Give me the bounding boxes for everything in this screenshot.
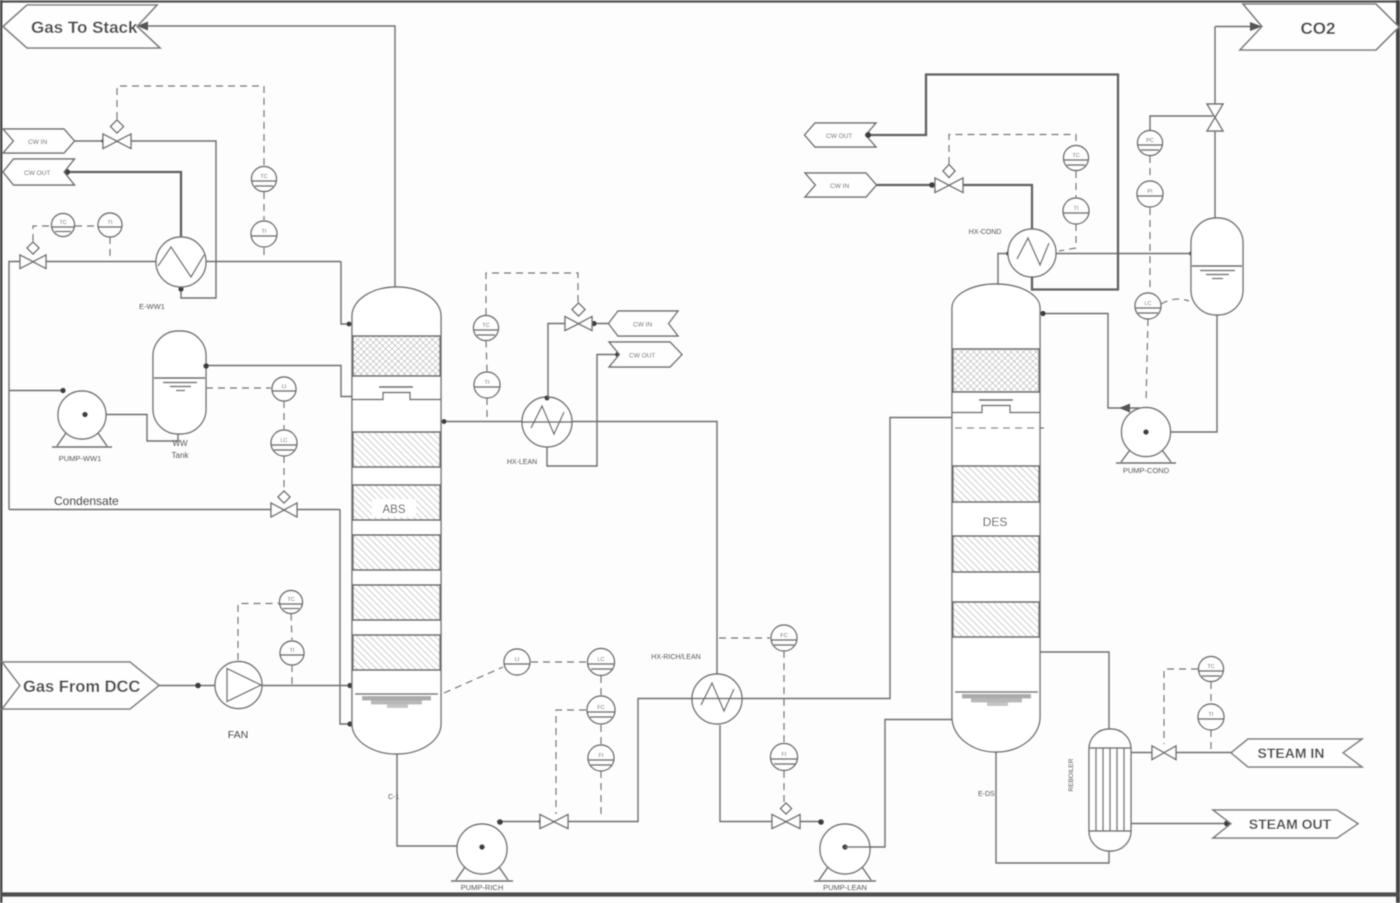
svg-text:C-1: C-1: [388, 794, 399, 801]
svg-text:PI: PI: [1147, 189, 1153, 195]
node dot at CW OUT banner: [64, 169, 70, 175]
node drum liquid level: [1192, 266, 1242, 279]
instrument LC condensate level controller: [271, 430, 297, 456]
svg-text:HX-RICH/LEAN: HX-RICH/LEAN: [651, 654, 700, 661]
svg-text:Gas To Stack: Gas To Stack: [31, 18, 138, 37]
wire condensate to ABS sump: [340, 510, 352, 725]
svg-text:CW OUT: CW OUT: [826, 133, 852, 140]
packing DES bed 2: [952, 536, 1040, 572]
packing ABS bed 3: [352, 535, 441, 570]
wire condensate line: [9, 509, 271, 511]
svg-text:ABS: ABS: [382, 504, 405, 516]
wire DES vapor side draw to reboiler: [1040, 652, 1109, 729]
banner CW OUT (DES side): [805, 123, 877, 147]
node entry dot: [347, 322, 352, 327]
svg-text:LI: LI: [282, 384, 287, 390]
node discharge dot: [60, 388, 65, 393]
node HX-LEAN top junction: [544, 395, 549, 400]
instrument TI gas line: [280, 641, 304, 665]
svg-text:HX-LEAN: HX-LEAN: [507, 459, 537, 466]
wire steam out line: [1131, 823, 1229, 825]
svg-text:FC: FC: [597, 705, 604, 711]
svg-text:E-DS: E-DS: [978, 791, 995, 798]
node dot at CW OUT: [615, 352, 621, 358]
banner CW IN (top left): [3, 129, 75, 153]
banner CO2: [1240, 4, 1399, 50]
instrument TI wash outlet: [251, 221, 277, 247]
instrument LC rich flow controller: [588, 649, 616, 676]
heat exchanger HX-LEAN: [522, 397, 572, 447]
wire CW supply to HX-COND: [877, 185, 1033, 229]
banner STEAM IN: [1231, 739, 1362, 767]
node junction: [195, 683, 201, 689]
svg-text:FC: FC: [780, 633, 787, 639]
instrument TI wash line: [98, 213, 122, 237]
wire ABS bottoms to PUMP-RICH: [397, 754, 458, 846]
wire dashed level loop: [206, 388, 284, 491]
valve HX-LEAN CW valve: [565, 303, 592, 331]
wire HX-COND outlet to reflux drum: [1056, 253, 1191, 255]
instrument TI CO2 temp: [1063, 198, 1089, 224]
wire rich line to DES: [742, 418, 952, 699]
svg-text:LC: LC: [597, 657, 604, 663]
wire dashed rich instrument loops: [444, 662, 601, 819]
wire dashed reboiler instrument loop: [1164, 669, 1211, 750]
instrument TC wash valve controller: [52, 214, 75, 237]
node dot at CW OUT banner: [865, 132, 871, 138]
svg-text:Gas From DCC: Gas From DCC: [23, 678, 140, 696]
svg-text:FI: FI: [782, 752, 787, 758]
wire dashed pressure chain: [1146, 156, 1189, 403]
pump PUMP-COND: [1116, 408, 1176, 464]
heat exchanger HX-COND: [1008, 229, 1056, 277]
instrument TI steam temp: [1198, 704, 1224, 730]
svg-text:PUMP-COND: PUMP-COND: [1123, 466, 1170, 475]
wire steam in line: [1131, 752, 1152, 754]
node DES sump liquid level: [955, 692, 1038, 706]
wire CW return loop HX-COND to CW OUT: [868, 75, 1118, 290]
svg-text:PC: PC: [1146, 138, 1154, 144]
svg-text:REBOILER: REBOILER: [1068, 758, 1075, 791]
wire drum overhead to valve and CO2: [1214, 131, 1216, 218]
wire reflux return to DES top: [1042, 314, 1140, 409]
packing DES bed 1: [952, 466, 1040, 502]
node arrowhead into CO2 banner: [1250, 22, 1262, 31]
node ABS label: [372, 499, 416, 517]
wire DES bottoms to reboiler: [996, 752, 1109, 863]
wire PC tap: [1150, 116, 1213, 131]
banner CW OUT (HX-LEAN): [609, 342, 682, 367]
wire gas-to-stack overhead line: [137, 26, 395, 288]
wire dashed distributor line: [955, 427, 1044, 429]
packing ABS bed 1: [352, 432, 441, 467]
svg-text:PUMP-RICH: PUMP-RICH: [461, 883, 504, 892]
wire lean solvent line HX-RICH/LEAN to ABS: [441, 422, 717, 676]
instrument FC rich flow: [587, 696, 615, 724]
vessel reflux drum: [1191, 218, 1243, 315]
wire CW IN to valve: [75, 140, 104, 142]
node ABS sump entry: [347, 721, 352, 726]
instrument TC fan: [280, 591, 303, 614]
valve rich solvent valve: [540, 815, 568, 829]
banner Gas To Stack: [3, 5, 160, 48]
wire fan to ABS: [262, 685, 352, 687]
svg-text:FAN: FAN: [228, 729, 248, 741]
svg-text:CW IN: CW IN: [28, 139, 47, 146]
wire CW supply to E-WW1 shell: [131, 141, 216, 298]
svg-text:HX-COND: HX-COND: [969, 229, 1002, 236]
packing DES bed 3: [952, 602, 1040, 637]
node discharge dot: [818, 819, 824, 825]
node chimney tray DES: [952, 400, 1040, 413]
instrument LT ABS level: [504, 649, 530, 675]
svg-text:LC: LC: [1144, 301, 1151, 307]
banner CW IN (HX-LEAN): [609, 311, 679, 336]
node discharge dot: [497, 819, 503, 825]
column DES desorber: [952, 284, 1040, 752]
packing DES wash section crosshatch: [953, 349, 1039, 392]
svg-text:TC: TC: [1207, 664, 1214, 670]
node ABS gas inlet dot: [347, 683, 352, 688]
svg-text:PUMP-WW1: PUMP-WW1: [59, 454, 102, 463]
svg-text:FI: FI: [599, 753, 604, 759]
valve condensate valve: [271, 491, 297, 517]
svg-text:CW IN: CW IN: [633, 322, 652, 329]
instrument TI lean temp: [474, 372, 500, 398]
wire dashed HX-LEAN instrument loop: [486, 273, 578, 419]
packing ABS bed 2: [352, 485, 441, 520]
instrument PC pressure controller: [1138, 131, 1163, 156]
wire drum bottoms to PUMP-COND: [1146, 315, 1217, 432]
valve HX-COND CW valve: [935, 165, 963, 193]
valve lean solvent valve: [772, 803, 800, 829]
wire CW return from E-WW1 to CW OUT: [67, 172, 181, 237]
banner CW IN (DES side): [805, 173, 877, 197]
valve CW-WW1 control valve: [103, 120, 131, 149]
wire pump-rich discharge to HX-RICH/LEAN: [497, 821, 540, 823]
node reflux entry dot: [1040, 311, 1045, 316]
node dot at STEAM OUT banner: [1224, 821, 1230, 827]
wire DES overhead to HX-COND: [998, 254, 1008, 286]
pump PUMP-RICH: [451, 824, 513, 881]
valve steam valve: [1152, 746, 1176, 760]
valve wash water valve: [20, 242, 46, 269]
node liquid level WW tank: [154, 378, 205, 391]
wire dashed TC loop: [33, 86, 264, 259]
svg-text:Tank: Tank: [172, 451, 190, 460]
svg-text:CW IN: CW IN: [830, 183, 849, 190]
wire CW supply to HX-LEAN: [592, 323, 609, 325]
wire dashed lean instrument loop: [719, 638, 784, 802]
svg-text:TI: TI: [1074, 206, 1079, 212]
instrument FC lean flow: [771, 744, 799, 771]
node arrowhead into Gas To Stack banner: [137, 22, 148, 31]
svg-text:E-WW1: E-WW1: [139, 302, 165, 311]
wire dashed HX-COND instrument loop: [949, 135, 1076, 252]
packing wash section crosshatch: [353, 336, 440, 376]
wire pump-lean discharge to HX-RICH/LEAN: [800, 821, 820, 823]
svg-text:TI: TI: [262, 229, 267, 235]
svg-text:STEAM IN: STEAM IN: [1258, 745, 1325, 761]
svg-text:TI: TI: [485, 380, 490, 386]
instrument LI WW tank level: [272, 377, 296, 401]
svg-text:DES: DES: [983, 515, 1008, 529]
wire lean suction from DES bottoms: [845, 720, 952, 848]
wire gas feed to FAN: [159, 685, 215, 687]
svg-text:TC: TC: [287, 597, 294, 603]
instrument LC drum level: [1135, 293, 1161, 319]
packing ABS bed 5: [352, 635, 441, 670]
svg-text:CW OUT: CW OUT: [629, 353, 655, 360]
node dot after valve: [591, 321, 596, 326]
node junction: [101, 138, 106, 143]
svg-text:TI: TI: [290, 648, 295, 654]
svg-text:PUMP-LEAN: PUMP-LEAN: [823, 883, 867, 892]
valve CO2 backpressure valve: [1207, 104, 1223, 131]
banner STEAM OUT: [1213, 810, 1358, 838]
node E-WW1 bottom junction: [178, 286, 183, 291]
svg-text:Condensate: Condensate: [54, 494, 119, 508]
svg-text:TI: TI: [1209, 712, 1214, 718]
svg-text:LI: LI: [515, 657, 520, 663]
node chimney tray ABS: [352, 387, 441, 400]
wire dashed fan instrument loop: [238, 604, 292, 685]
instrument TC lean line: [771, 625, 797, 651]
wire pump discharge to riser: [9, 390, 62, 392]
fan FAN blower: [215, 662, 262, 709]
wire wash water line through E-WW1: [46, 261, 341, 263]
node ABS sump liquid level: [355, 694, 438, 708]
vessel WW Tank: [153, 331, 206, 434]
node lean entry dot: [442, 419, 447, 424]
banner CW OUT (top left): [3, 159, 75, 185]
node tank inlet dot: [203, 363, 209, 369]
wire wash water return to ABS top: [341, 262, 352, 325]
wire tank bottom to pump suction: [85, 415, 178, 442]
pump PUMP-LEAN: [814, 824, 876, 881]
svg-text:TC: TC: [1072, 153, 1079, 159]
instrument TC HX-LEAN controller: [474, 316, 499, 341]
heat exchanger HX-RICH/LEAN: [692, 674, 742, 724]
svg-text:CW OUT: CW OUT: [24, 170, 50, 177]
banner Gas From DCC: [2, 662, 159, 709]
node arrowhead reflux: [1119, 404, 1130, 413]
pump PUMP-WW1: [52, 391, 112, 447]
node dot HX-COND inlet: [1006, 251, 1012, 257]
svg-text:LC: LC: [280, 438, 287, 444]
svg-text:TC: TC: [482, 323, 489, 329]
heat exchanger E-WW1: [156, 237, 206, 287]
wire left riser pipe: [9, 262, 20, 510]
instrument PI pressure: [1137, 181, 1163, 207]
svg-text:CO2: CO2: [1301, 19, 1336, 38]
instrument TC reboiler controller: [1199, 657, 1224, 682]
svg-text:TC: TC: [59, 220, 66, 226]
svg-text:TI: TI: [108, 220, 113, 226]
node drum inlet dot: [1189, 251, 1195, 257]
instrument TC CW valve controller: [252, 167, 277, 192]
wire draw-off ABS chimney tray to WW tank: [206, 366, 353, 397]
reboiler REBOILER kettle: [1089, 729, 1131, 851]
svg-text:STEAM OUT: STEAM OUT: [1249, 816, 1332, 832]
instrument FT rich flow transmitter: [588, 745, 614, 771]
node dot before valve: [929, 182, 935, 188]
wire CW return HX-LEAN to CW OUT: [547, 355, 618, 467]
packing ABS bed 4: [352, 585, 441, 620]
column ABS absorber: [352, 287, 441, 754]
svg-text:TC: TC: [260, 174, 267, 180]
instrument TC HX-COND controller: [1064, 146, 1089, 171]
